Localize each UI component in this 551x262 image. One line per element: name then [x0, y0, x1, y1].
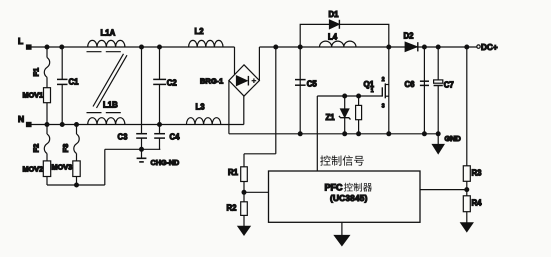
- wire divider to PFC: [244, 191, 269, 193]
- wire F1 to MOV1: [46, 77, 48, 88]
- svg-text:L4: L4: [328, 32, 338, 41]
- capacitor C4: [159, 125, 161, 134]
- svg-text:L3: L3: [196, 103, 206, 112]
- svg-text:3: 3: [382, 104, 385, 110]
- wire MOV1 to N: [46, 103, 48, 125]
- wire F2 stub: [46, 125, 48, 135]
- junction C2 top: [158, 45, 162, 49]
- junction R3/R4: [465, 188, 469, 192]
- ground GND: [437, 134, 439, 145]
- svg-text:N: N: [18, 114, 24, 124]
- svg-text:C3: C3: [118, 133, 129, 142]
- wire F1 top stub: [46, 47, 48, 58]
- svg-text:DC+: DC+: [481, 43, 498, 52]
- svg-text:R1: R1: [228, 168, 239, 177]
- wire R1 drop: [275, 47, 277, 154]
- svg-text:C4: C4: [170, 133, 181, 142]
- junction rail/R1: [274, 45, 278, 49]
- varistor MOV3: [73, 161, 80, 177]
- svg-text:F3: F3: [61, 144, 70, 153]
- resistor R3: [463, 166, 470, 182]
- junction C7 top: [436, 45, 440, 49]
- svg-text:GND: GND: [445, 134, 461, 143]
- svg-text:CHG-ND: CHG-ND: [151, 158, 180, 167]
- wire MOV bottoms: [47, 184, 105, 186]
- junction chassis node: [140, 147, 144, 151]
- svg-text:BRG-1: BRG-1: [200, 77, 223, 86]
- junction C7 bottom: [436, 132, 440, 136]
- junction F1 top: [45, 45, 49, 49]
- wire bridge AC riser from L: [234, 47, 236, 74]
- svg-text:R3: R3: [472, 169, 483, 178]
- wire N neutral line: [29, 124, 244, 126]
- junction gate resistor top: [357, 94, 361, 98]
- junction F3 top: [75, 123, 79, 127]
- node DC+ terminal: [477, 45, 480, 48]
- junction C2/C4 on N: [158, 123, 162, 127]
- wire MOV2 down: [46, 177, 48, 186]
- junction MOV1/F2 on N: [45, 123, 49, 127]
- wire R3-R4: [466, 181, 468, 196]
- wire rectified rail: [259, 46, 477, 48]
- capacitor C1: [61, 47, 63, 79]
- junction Z1 top: [343, 94, 347, 98]
- svg-text:C5: C5: [307, 79, 318, 88]
- junction gate resistor bottom: [357, 132, 361, 136]
- fuse F3: [74, 134, 79, 154]
- junction R1/R2: [242, 190, 246, 194]
- junction C1 bottom: [60, 123, 64, 127]
- svg-text:D1: D1: [329, 10, 340, 19]
- bridge plus mark: [252, 80, 257, 82]
- resistor R2: [241, 202, 248, 216]
- resistor gate: [358, 96, 360, 105]
- label controller (kongzhiqi): [344, 183, 372, 192]
- core diagonal 1: [93, 54, 124, 107]
- wire bottom rail: [229, 133, 438, 135]
- svg-text:D2: D2: [404, 32, 415, 41]
- varistor MOV2: [43, 161, 50, 177]
- svg-text:C2: C2: [167, 79, 178, 88]
- op-amp U1 PFC controller box: [269, 171, 421, 222]
- wire R2 down: [243, 215, 245, 226]
- svg-text:C1: C1: [69, 78, 80, 87]
- svg-text:R4: R4: [472, 199, 483, 208]
- capacitor C7: [437, 47, 439, 80]
- svg-text:F1: F1: [32, 68, 41, 77]
- junction MOV3 bottom: [75, 183, 79, 187]
- junction Q1 source rail: [387, 132, 391, 136]
- svg-text:1: 1: [371, 88, 374, 94]
- svg-text:L2: L2: [195, 27, 205, 36]
- wire chassis riser: [104, 149, 106, 185]
- capacitor C6: [423, 47, 425, 134]
- core dash L1A: [87, 51, 124, 53]
- ground below R2: [238, 226, 250, 235]
- ground CHG-ND: [141, 149, 143, 158]
- svg-text:MOV1: MOV1: [23, 91, 44, 100]
- svg-text:L1B: L1B: [103, 101, 118, 110]
- wire Q1 gate: [317, 95, 382, 97]
- core dash L1B: [87, 112, 124, 114]
- svg-text:R2: R2: [227, 204, 238, 213]
- label control signal (kongzhi xinhao): [320, 155, 364, 165]
- wire Q1 drain-source: [388, 47, 390, 134]
- fuse F1: [44, 58, 49, 78]
- junction Z1 bottom: [343, 132, 347, 136]
- wire R4 down: [466, 212, 468, 223]
- junction C1 top: [60, 45, 64, 49]
- svg-text:C6: C6: [405, 80, 416, 89]
- core diagonal 2: [97, 55, 128, 108]
- varistor MOV1: [44, 88, 51, 103]
- wire F2 to MOV2: [46, 154, 48, 161]
- wire bridge AC riser from N: [243, 96, 245, 124]
- wire R3 drop: [466, 47, 468, 166]
- junction C6 bottom: [423, 132, 427, 136]
- svg-text:MOV3: MOV3: [52, 163, 73, 172]
- wire D1 loop: [300, 24, 389, 47]
- wire feedback to PFC: [420, 189, 467, 191]
- wire chassis horizontal: [105, 148, 160, 150]
- ground below R4: [461, 223, 473, 232]
- wire MOV3 down: [76, 177, 78, 186]
- junction R3 tap: [465, 45, 469, 49]
- resistor R1: [241, 167, 248, 182]
- svg-text:Z1: Z1: [326, 113, 336, 122]
- svg-text:(UC3845): (UC3845): [330, 193, 368, 203]
- ground below PFC box: [341, 222, 343, 235]
- junction L4/Q1: [387, 45, 391, 49]
- svg-text:L1A: L1A: [101, 29, 116, 38]
- junction C5 bottom: [298, 132, 302, 136]
- wire F3 to MOV3: [76, 154, 78, 161]
- capacitor C2: [159, 47, 161, 79]
- capacitor C3: [141, 47, 143, 134]
- junction C5/D1: [298, 45, 302, 49]
- wire F3 stub: [76, 125, 78, 135]
- capacitor C5: [299, 47, 301, 134]
- wire control signal: [316, 96, 318, 171]
- resistor R4: [463, 196, 470, 212]
- wire R1-R2: [243, 182, 245, 202]
- bridge diode symbol: [237, 76, 248, 86]
- wire bridge DC+ riser: [258, 47, 260, 81]
- svg-text:F2: F2: [32, 144, 41, 153]
- junction C6 top: [423, 45, 427, 49]
- svg-text:L: L: [18, 36, 23, 46]
- wire bridge minus drop: [228, 81, 230, 134]
- svg-text:C7: C7: [444, 80, 454, 89]
- svg-text:MOV2: MOV2: [23, 165, 44, 174]
- svg-text:2: 2: [382, 77, 385, 83]
- svg-text:PFC: PFC: [325, 183, 344, 193]
- junction C3 top: [140, 45, 144, 49]
- fuse F2: [44, 134, 49, 154]
- wire L line top rail segment: [29, 46, 235, 48]
